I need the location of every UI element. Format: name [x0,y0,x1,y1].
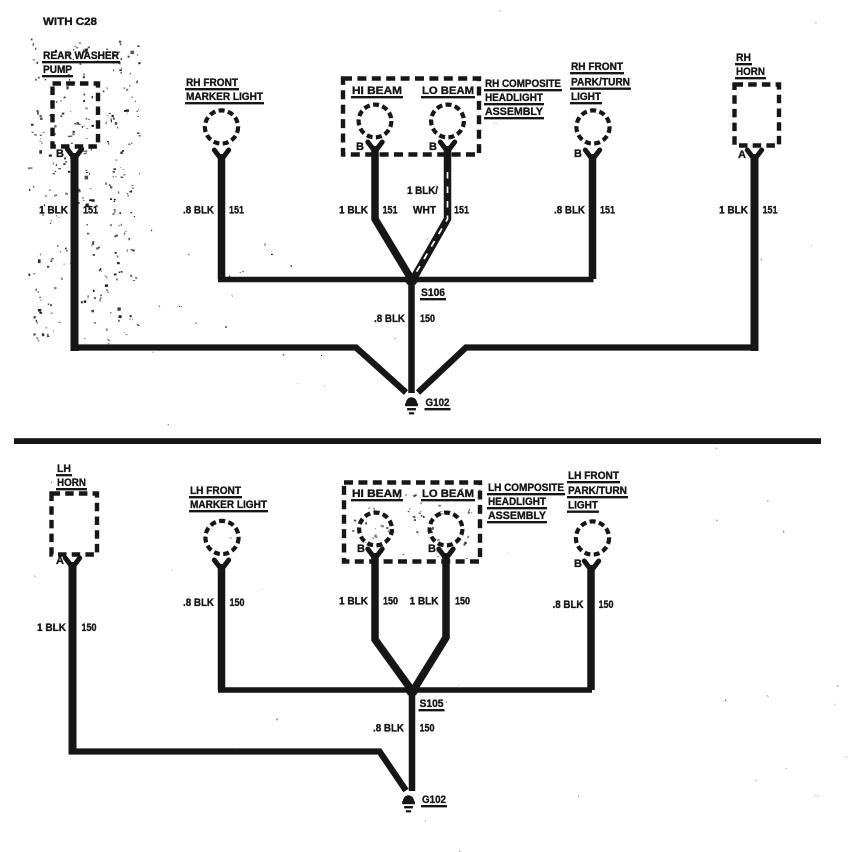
wire label .8 BLK 150 (S105) [373,723,435,735]
svg-text:.8 BLK: .8 BLK [553,599,584,611]
svg-text:.8 BLK: .8 BLK [183,597,214,609]
svg-text:150: 150 [420,313,435,325]
bus wire to splice S105 [218,687,592,693]
wire 1 BLK 151 from RH horn [751,154,759,351]
svg-text:S105: S105 [420,698,444,710]
wire .8 BLK 150 from park/turn (LH) [587,565,595,690]
wire label 1 BLK 150 (HI LH) [339,596,398,608]
svg-text:B: B [56,148,64,160]
connector fork LH marker light [214,560,228,570]
wire 1 BLK 150 from HI BEAM (LH) [375,553,412,690]
svg-text:150: 150 [599,599,614,611]
svg-text:.8 BLK: .8 BLK [183,205,214,217]
LH composite headlight assembly box [344,483,480,562]
svg-text:ASSEMBLY: ASSEMBLY [488,510,547,522]
wire 1 BLK 150 from LH horn [69,562,77,755]
svg-text:A: A [56,555,64,567]
ground G102 (bottom) [403,795,414,801]
LH horn label [56,463,87,489]
svg-text:.8 BLK: .8 BLK [554,205,585,217]
svg-text:HORN: HORN [57,477,86,489]
svg-text:150: 150 [383,596,398,608]
wire label 1 BLK 150 (LH horn) [37,622,97,634]
RH composite headlight assembly box [343,79,479,155]
svg-text:1 BLK/: 1 BLK/ [407,185,438,197]
connector fork rear washer pump [67,149,81,159]
svg-text:LO BEAM: LO BEAM [422,85,474,97]
RH horn box [735,85,780,146]
svg-text:ASSEMBLY: ASSEMBLY [485,106,544,118]
svg-text:REAR WASHER: REAR WASHER [43,50,119,62]
connector fork LO BEAM (LH) [439,549,453,559]
wire label .8 BLK 150 [374,313,435,325]
svg-text:WHT: WHT [413,205,436,217]
wire .8 BLK 150 from LH marker light [218,564,226,690]
svg-text:150: 150 [230,597,245,609]
wire label .8 BLK 151 [183,205,244,217]
svg-text:G102: G102 [422,794,446,806]
svg-text:1 BLK: 1 BLK [719,205,748,217]
connector fork LH horn [65,558,79,568]
wire label .8 BLK 150 (marker) [183,597,245,609]
svg-text:MARKER LIGHT: MARKER LIGHT [190,499,267,511]
white stripe on BLK/WHT wire [414,172,448,277]
connector fork HI BEAM (LH) [368,549,382,559]
wire label .8 BLK 150 (park/turn LH) [553,599,614,611]
wire label 1 BLK 150 (LO LH) [410,596,471,608]
connector fork HI BEAM [368,142,382,152]
splice S105 [406,685,418,697]
svg-text:B: B [356,141,364,153]
LH horn box [52,494,98,555]
wire label 1 BLK 151 [39,205,98,217]
svg-text:RH FRONT: RH FRONT [186,77,238,89]
svg-text:RH FRONT: RH FRONT [571,61,623,73]
svg-text:HORN: HORN [736,66,765,78]
LO BEAM lamp (LH) [430,513,463,546]
wire 1 BLK 150 from LO BEAM (LH) [414,553,447,690]
svg-text:B: B [429,141,437,153]
wire 1 BLK/WHT 151 from LO BEAM [413,146,448,280]
svg-text:150: 150 [420,723,435,735]
svg-text:1 BLK: 1 BLK [339,205,368,217]
wire 1 BLK 151 from HI BEAM [375,146,412,280]
svg-text:B: B [428,543,436,555]
svg-text:G102: G102 [426,397,450,409]
LH front park/turn light label [567,470,628,512]
wire 1 BLK 151 from rear washer pump [71,153,79,351]
svg-text:PARK/TURN: PARK/TURN [571,77,630,89]
svg-text:151: 151 [600,205,615,217]
ground G102 (top) [406,397,417,403]
svg-text:PARK/TURN: PARK/TURN [568,485,627,497]
RH horn label [735,52,766,78]
HI BEAM lamp [359,105,392,138]
connector fork park/turn (LH) [584,561,598,571]
svg-text:A: A [738,149,746,161]
wire .8 BLK 151 from marker light [218,154,226,279]
svg-text:PUMP: PUMP [43,64,72,76]
RH front marker light label [185,77,264,103]
svg-text:MARKER LIGHT: MARKER LIGHT [186,91,263,103]
svg-text:HI BEAM: HI BEAM [352,85,402,97]
noise inside LH headlight box [352,488,473,559]
svg-text:1 BLK: 1 BLK [37,622,66,634]
svg-text:1 BLK: 1 BLK [39,205,68,217]
svg-text:LH FRONT: LH FRONT [568,470,619,482]
svg-text:LO BEAM: LO BEAM [422,488,474,500]
svg-text:151: 151 [454,205,469,217]
RH composite headlight assembly label [484,78,562,118]
rear washer pump box [53,84,99,147]
connector fork RH horn [747,150,761,160]
svg-text:151: 151 [763,205,778,217]
connector fork park/turn [585,150,599,160]
svg-text:HEADLIGHT: HEADLIGHT [485,92,543,104]
RH front marker light lamp [205,110,238,143]
svg-text:1 BLK: 1 BLK [410,596,439,608]
connector fork LO BEAM [440,142,454,152]
svg-text:B: B [574,558,582,570]
splice S106 [406,274,418,286]
wire label 1 BLK 151 (horn) [719,205,778,217]
RH front park/turn lamp [576,110,609,143]
svg-text:LH COMPOSITE: LH COMPOSITE [488,482,564,494]
svg-text:LIGHT: LIGHT [568,500,598,512]
wire label 1 BLK 151 (HI BEAM) [339,205,398,217]
ground run from washer pump wire [71,348,406,393]
LO BEAM lamp [431,105,464,138]
svg-text:WITH C28: WITH C28 [43,16,97,28]
svg-text:LIGHT: LIGHT [571,91,601,103]
LH front park/turn lamp [576,521,609,554]
wire .8 BLK 150 from S105 to ground [409,692,416,791]
svg-text:150: 150 [82,622,97,634]
svg-text:S106: S106 [421,287,445,299]
svg-text:1 BLK: 1 BLK [339,596,368,608]
svg-text:LH FRONT: LH FRONT [190,485,241,497]
svg-text:.8 BLK: .8 BLK [374,313,405,325]
svg-text:RH COMPOSITE: RH COMPOSITE [485,78,561,90]
section divider line [14,438,821,444]
ground run from LH horn wire [69,752,406,791]
RH front park/turn light label [570,61,631,103]
LH front marker light label [189,485,268,511]
svg-text:151: 151 [229,205,244,217]
ground run from RH horn wire [418,348,758,393]
connector fork marker light [214,150,228,160]
wire label 1 BLK/WHT 151 (LO BEAM) [407,185,469,217]
svg-text:151: 151 [383,205,398,217]
LH composite headlight assembly label [487,482,565,522]
rear washer pump label [42,50,120,76]
wire label .8 BLK 151 (park/turn) [554,205,615,217]
svg-text:150: 150 [455,596,470,608]
svg-text:RH: RH [736,52,751,64]
HI BEAM lamp (LH) [359,513,392,546]
svg-text:B: B [574,148,582,160]
svg-text:B: B [357,543,365,555]
wire .8 BLK 150 from S106 to ground [408,282,415,393]
svg-text:.8 BLK: .8 BLK [373,723,404,735]
svg-text:LH: LH [57,463,71,475]
bus wire to splice S106 [218,277,594,283]
svg-text:HEADLIGHT: HEADLIGHT [488,496,546,508]
LH front marker light lamp [205,521,238,554]
wire .8 BLK 151 from park/turn [589,154,597,279]
svg-text:HI BEAM: HI BEAM [352,488,402,500]
svg-text:151: 151 [83,205,98,217]
